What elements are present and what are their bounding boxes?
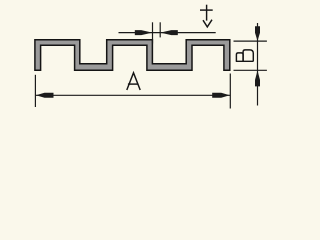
dimension A: right extension line [229,74,231,109]
dimension A: left arrowhead [36,93,54,98]
dimension A: dimension line [35,94,230,96]
dimension t: left extension tick [152,22,154,43]
corrugated sheet profile cross-section [35,40,230,70]
dimension B: dimension line [257,23,259,106]
dimension t: left arrowhead [135,30,153,35]
label t glyph [200,5,213,27]
label A glyph [127,73,140,90]
dimension A: left extension line [34,75,36,107]
dimension A: right arrowhead [212,93,230,98]
dimension B: bottom arrowhead [255,70,260,86]
dimension t: right extension tick [159,22,161,37]
dimension B: top extension line [234,40,267,42]
dimension t: dimension line [119,32,216,34]
dimension t: right arrowhead [160,30,178,35]
dimension B: bottom extension line [234,69,267,71]
label B glyph (rotated 90° CCW) [236,50,254,61]
dimension B: top arrowhead [255,26,260,41]
